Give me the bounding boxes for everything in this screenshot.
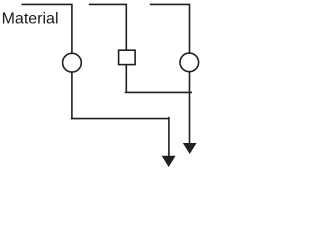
svg-text:Material: Material (2, 11, 59, 28)
arrowhead left arrow (162, 156, 176, 167)
wire top-middle horizontal with corner down to square (89, 4, 127, 50)
wire middle vertical below square (125, 65, 127, 93)
arrowhead right arrow (183, 143, 197, 154)
wire middle horizontal connector to right line (125, 91, 192, 93)
component square (block B1) (119, 50, 136, 64)
component circle right (sensor S2) (180, 53, 199, 72)
wire vertical drop to left arrow (168, 117, 170, 157)
wire top-left horizontal with corner down to left circle (22, 4, 72, 53)
wire left vertical below circle, corner, bottom horizontal run (71, 72, 169, 118)
wire top-right horizontal with corner down to right circle (150, 4, 190, 53)
component circle left (sensor S1) (63, 53, 82, 72)
wire right vertical below circle to arrow (189, 72, 191, 145)
